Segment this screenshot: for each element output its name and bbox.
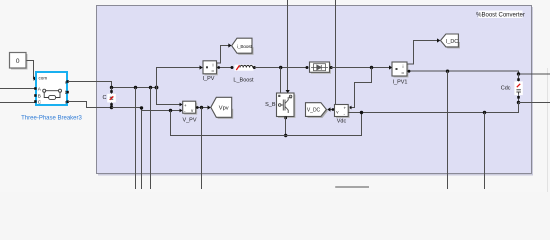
- arrowhead com: [34, 76, 38, 81]
- off-screen block edge bottom: [335, 186, 369, 188]
- node x156: [155, 86, 159, 90]
- goto tag I_DC: [441, 34, 460, 48]
- svg-text:V_PV: V_PV: [182, 118, 196, 124]
- svg-text:i: i: [403, 64, 404, 69]
- node x135: [134, 86, 137, 89]
- svg-text:L_Boost: L_Boost: [233, 78, 254, 84]
- wire breaker a to node: [68, 82, 112, 88]
- diode block: [306, 62, 333, 74]
- svg-text:+: +: [344, 105, 347, 110]
- voltage sensor Vdc: [335, 105, 350, 119]
- annotation label %Boost Converter: [476, 11, 525, 19]
- annotation area %Boost Converter: [97, 6, 534, 176]
- node Cdc top: [517, 72, 520, 75]
- vertical drop x484: [484, 113, 486, 190]
- arrowhead into V_PV plus: [180, 103, 183, 107]
- S_B emitter port: [284, 117, 287, 120]
- vertical drop x150: [150, 88, 152, 190]
- node x150: [149, 86, 152, 89]
- output wire minus: [519, 102, 550, 104]
- wire constant to breaker com: [27, 61, 35, 79]
- vertical drop x135: [135, 88, 137, 190]
- S_B gate wire from top: [287, 0, 289, 91]
- arrowhead gate: [286, 90, 290, 93]
- faint canvas edge right: [547, 68, 549, 192]
- top rail: [112, 87, 157, 89]
- wire I_PV1 m to I_DC: [407, 41, 437, 65]
- node x484: [483, 111, 486, 114]
- IGBT S_B: [277, 93, 296, 118]
- svg-text:0: 0: [16, 58, 20, 65]
- node x141 bottom: [140, 106, 143, 109]
- arrowhead into i_Boost: [228, 43, 231, 47]
- svg-text:C: C: [103, 95, 107, 101]
- wire I_PV m to goto i_Boost: [217, 46, 229, 64]
- constant block 0: [10, 53, 28, 70]
- svg-text:S_B: S_B: [265, 102, 276, 108]
- svg-text:I_PV1: I_PV1: [393, 80, 408, 86]
- arrowhead into V_PV minus: [180, 109, 183, 113]
- node S_B collector: [279, 66, 282, 69]
- svg-text:i: i: [213, 63, 214, 68]
- from tag Vpv: [211, 97, 233, 119]
- goto tag i_Boost: [232, 38, 254, 55]
- vertical drop x447: [447, 71, 449, 189]
- riser node156 up to I_PV and down to V_PV plus: [157, 68, 200, 105]
- arrowhead into Vpv: [208, 105, 211, 109]
- input wire A: [0, 88, 36, 90]
- three-phase breaker block: [36, 72, 68, 106]
- rail diode to I_PV1: [331, 67, 389, 69]
- S_B collector wire: [280, 68, 282, 94]
- right rail I_PV1 to Cdc: [407, 71, 550, 74]
- svg-text:%Boost Converter: %Boost Converter: [476, 13, 525, 19]
- input wire C: [0, 102, 36, 104]
- node cap C top: [110, 86, 113, 89]
- svg-text:I_PV: I_PV: [203, 76, 215, 82]
- capacitor Cdc: [514, 74, 522, 103]
- node x447: [446, 70, 449, 73]
- wire breaker c to bottom rail: [68, 102, 112, 108]
- low rail y135: [171, 111, 362, 136]
- svg-text:V_DC: V_DC: [307, 108, 321, 114]
- svg-text:com: com: [39, 76, 48, 81]
- node cap C bottom: [110, 106, 113, 109]
- inductor L_Boost: [231, 65, 256, 71]
- svg-text:i_Boost: i_Boost: [237, 44, 253, 50]
- svg-text:Three-Phase Breaker3: Three-Phase Breaker3: [21, 116, 82, 122]
- vertical drop x201: [201, 108, 203, 190]
- goto tag V_DC: [306, 103, 328, 118]
- arrowhead into I_PV: [200, 65, 203, 69]
- arrowhead into Vdc plus: [349, 106, 352, 110]
- rail L_Boost to diode: [254, 67, 307, 69]
- current sensor I_PV: [203, 61, 218, 76]
- svg-text:Vdc: Vdc: [337, 119, 347, 125]
- wire Vdc minus: [348, 112, 361, 114]
- bottom rail: [112, 108, 182, 111]
- current sensor I_PV1: [392, 62, 409, 78]
- wire Vdc out to V_DC: [331, 109, 335, 111]
- svg-text:+: +: [184, 103, 187, 108]
- capacitor C: [107, 88, 116, 108]
- svg-text:B: B: [38, 93, 41, 98]
- node Vdc minus: [360, 111, 363, 114]
- node Vdc plus sense: [370, 66, 373, 69]
- vertical drop x141: [141, 108, 143, 190]
- bottom right rail: [362, 103, 519, 113]
- arrowhead into I_PV1: [389, 65, 392, 69]
- arrowhead into V_DC: [327, 107, 330, 111]
- breaker switch icon: [43, 89, 62, 99]
- node V_PV out: [200, 106, 203, 109]
- node x170 bottom: [169, 109, 172, 112]
- arrowhead into I_DC: [437, 38, 440, 42]
- svg-text:I_DC: I_DC: [446, 39, 458, 45]
- node S_B emitter on rail: [284, 134, 287, 137]
- wire Vdc plus sense: [352, 68, 372, 108]
- wire V_PV out: [196, 107, 208, 109]
- wire I_PV out to L_Boost: [217, 67, 233, 69]
- voltage sensor V_PV: [183, 101, 198, 115]
- breaker port stubs: [34, 80, 69, 103]
- svg-text:Cdc: Cdc: [501, 86, 511, 92]
- wire S_B emitter down: [285, 117, 287, 136]
- vertical wire from top x335: [335, 0, 337, 105]
- node Cdc bottom: [517, 101, 520, 104]
- svg-text:Vpv: Vpv: [219, 106, 229, 112]
